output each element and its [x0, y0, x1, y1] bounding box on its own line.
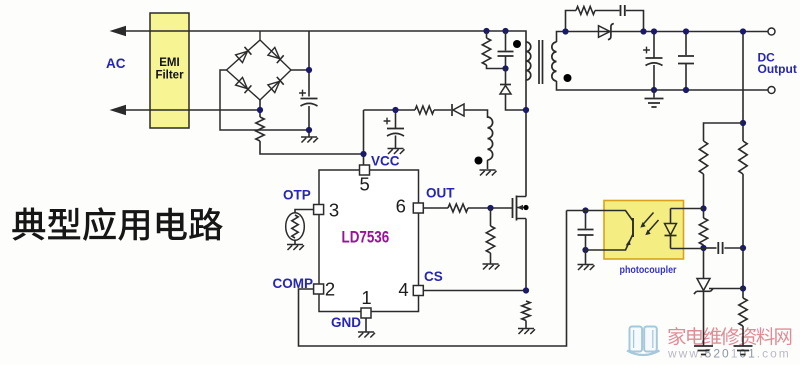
svg-text:EMI: EMI: [159, 57, 179, 69]
svg-text:Output: Output: [758, 62, 797, 76]
svg-text:AC: AC: [106, 56, 126, 71]
svg-text:LD7536: LD7536: [342, 228, 390, 247]
svg-text:3: 3: [329, 200, 339, 221]
svg-text:5: 5: [359, 174, 369, 195]
svg-text:OTP: OTP: [283, 188, 311, 203]
svg-text:4: 4: [398, 279, 408, 300]
svg-text:6: 6: [396, 196, 406, 217]
svg-text:photocoupler: photocoupler: [620, 264, 677, 276]
svg-text:GND: GND: [331, 315, 361, 330]
svg-text:www.520101.com: www.520101.com: [667, 347, 791, 361]
svg-text:VCC: VCC: [371, 154, 400, 169]
svg-text:2: 2: [325, 279, 335, 300]
svg-text:COMP: COMP: [273, 276, 314, 291]
svg-text:OUT: OUT: [426, 186, 455, 201]
svg-text:1: 1: [361, 287, 371, 308]
svg-text:Filter: Filter: [155, 70, 184, 82]
svg-text:CS: CS: [424, 269, 443, 284]
